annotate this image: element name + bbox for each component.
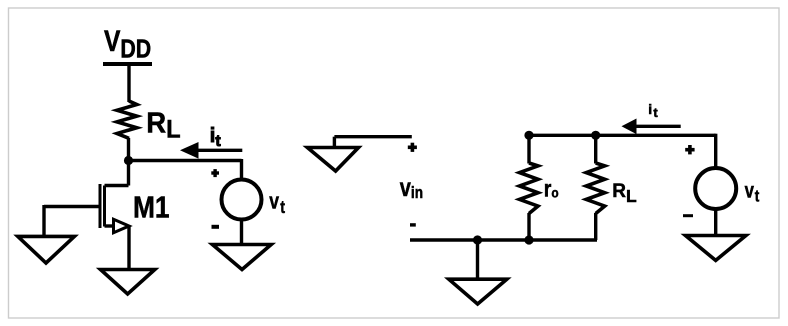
voltage source vt (left test source)	[222, 180, 262, 220]
svg-text:M1: M1	[133, 191, 170, 225]
label + (vt right polarity)	[685, 145, 694, 154]
node junction top RL	[591, 131, 600, 140]
node drain junction	[124, 156, 133, 165]
wire source to ground	[127, 226, 130, 270]
label it (right)	[648, 101, 658, 120]
label - (vin polarity)	[410, 223, 416, 226]
resistor RL (right)	[586, 163, 605, 214]
node junction bottom ground	[473, 235, 482, 244]
node junction top ro	[524, 131, 533, 140]
wire rail to ground	[476, 240, 479, 279]
ground (below vt right)	[686, 236, 746, 261]
label RL (left)	[146, 106, 181, 144]
svg-text:it: it	[648, 101, 658, 120]
ground (source)	[101, 270, 155, 295]
label M1	[133, 191, 170, 225]
wire vt right bottom lead	[714, 208, 717, 236]
label VDD	[104, 24, 151, 64]
label - (vt left polarity)	[212, 225, 220, 229]
label vt (left)	[269, 190, 285, 218]
wire drain node to vt	[129, 159, 242, 162]
wire gate to ground	[42, 205, 45, 236]
wire RL top lead	[594, 135, 597, 163]
wire ro top lead	[527, 135, 530, 163]
voltage source vt (right test source)	[695, 168, 736, 209]
ground (below vt left)	[212, 245, 271, 270]
wire ro bottom lead	[527, 213, 530, 240]
label vt (right)	[745, 180, 760, 206]
wire RL bottom lead	[594, 213, 597, 240]
label vin	[400, 174, 423, 203]
label + (vin polarity)	[408, 143, 417, 152]
wire vt right top lead	[714, 134, 717, 169]
wire VDD to RL	[127, 62, 130, 102]
label RL (right)	[612, 181, 637, 206]
resistor ro	[520, 163, 539, 214]
label it (left)	[210, 125, 222, 150]
current arrow it (left)	[180, 142, 242, 159]
wire vt bottom lead	[240, 219, 243, 245]
wire RL to drain node	[127, 138, 130, 186]
power supply VDD bar	[103, 62, 152, 66]
ground (vin+ terminal)	[307, 148, 358, 172]
transistor M1	[44, 184, 129, 233]
node junction bottom ro	[524, 235, 533, 244]
wire bottom rail	[410, 238, 597, 241]
ground (gate)	[18, 236, 75, 263]
wire stub to ground	[333, 137, 336, 148]
wire top rail	[529, 134, 716, 137]
wire vt top lead	[240, 159, 243, 180]
ground (bottom rail)	[449, 279, 507, 304]
label - (vt right polarity)	[683, 214, 693, 217]
label ro	[544, 176, 559, 202]
resistor RL	[117, 101, 137, 138]
label + (vt left polarity)	[211, 169, 219, 177]
current arrow it (right)	[622, 119, 681, 135]
wire vin+ ground lead (right circuit)	[334, 135, 411, 138]
